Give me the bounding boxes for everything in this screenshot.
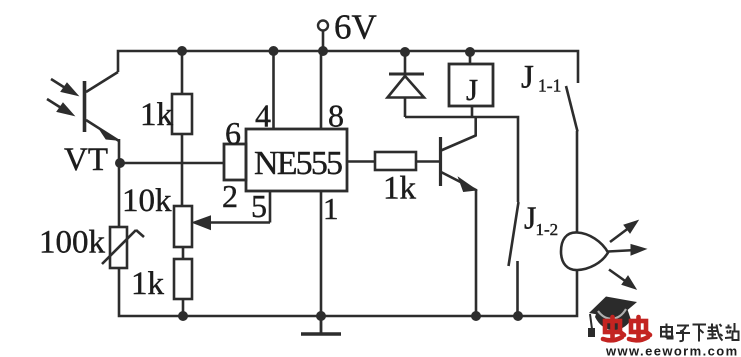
switch contact J1-1 bbox=[566, 86, 578, 233]
op-amp U1 NE555 box bbox=[246, 129, 347, 191]
svg-text:1k: 1k bbox=[140, 97, 174, 133]
transistor Q1 bbox=[441, 117, 477, 316]
relay J coil box bbox=[449, 52, 493, 117]
resistor R3 1k (bottom) bbox=[174, 247, 192, 316]
light output arrow bottom bbox=[609, 270, 636, 290]
svg-text:1k: 1k bbox=[383, 171, 417, 207]
watermark chongchong red glyphs bbox=[603, 317, 650, 340]
wire pin 3 output bbox=[347, 160, 375, 163]
node VT junction dot bbox=[115, 158, 125, 168]
lamp emitter bbox=[561, 232, 608, 270]
svg-text:www.eeworm.com: www.eeworm.com bbox=[605, 344, 739, 357]
svg-text:VT: VT bbox=[64, 142, 108, 178]
svg-text:4: 4 bbox=[255, 98, 271, 134]
svg-text:100k: 100k bbox=[39, 225, 106, 261]
potentiometer RP1 100k bbox=[102, 163, 144, 268]
transistor VT phototransistor bbox=[85, 72, 120, 163]
switch contact J1-2 bbox=[509, 202, 519, 316]
svg-text:5: 5 bbox=[251, 188, 267, 224]
node junction dots on top rail bbox=[177, 46, 475, 57]
wire bottom ground rail bbox=[119, 268, 577, 316]
wire pin 4 to rail bbox=[272, 51, 275, 129]
wire collector node to J1-2 bbox=[405, 117, 518, 202]
wire R1 bottom through VT wire to RP2 top bbox=[181, 163, 184, 206]
svg-text:8: 8 bbox=[328, 98, 344, 134]
svg-text:1-2: 1-2 bbox=[536, 220, 559, 239]
ground bbox=[301, 316, 341, 334]
light arrow 2 into VT bbox=[47, 99, 74, 116]
svg-text:2: 2 bbox=[222, 178, 238, 214]
svg-text:6V: 6V bbox=[334, 8, 377, 47]
wire pin 5 to RP2 wiper bbox=[269, 191, 272, 223]
wire pin 8 to rail bbox=[320, 51, 323, 129]
wire top supply rail bbox=[118, 51, 578, 83]
wire pin 1 to ground rail bbox=[320, 191, 323, 316]
watermark dianzi xiazaizhan glyphs bbox=[661, 323, 739, 342]
svg-text:NE555: NE555 bbox=[254, 145, 343, 182]
resistor R4 1k (base) bbox=[375, 152, 439, 170]
svg-text:6: 6 bbox=[225, 115, 241, 151]
node junction dots on bottom rail bbox=[178, 311, 523, 321]
light output arrow top bbox=[610, 221, 638, 243]
wire VT node to NE555 pins 2,6 bbox=[120, 162, 224, 165]
node 6V terminal bbox=[318, 21, 328, 52]
resistor R1 1k (top) bbox=[172, 51, 192, 163]
svg-text:J: J bbox=[521, 60, 534, 96]
light output arrow middle bbox=[608, 245, 646, 256]
node pins 2,6 tie box bbox=[224, 144, 246, 180]
svg-text:10k: 10k bbox=[122, 183, 172, 219]
svg-text:1-1: 1-1 bbox=[538, 76, 561, 96]
svg-text:J: J bbox=[466, 72, 478, 107]
watermark graduation cap bbox=[588, 297, 637, 338]
potentiometer RP2 10k bbox=[174, 206, 270, 247]
diode VD1 bbox=[388, 52, 425, 117]
svg-text:1k: 1k bbox=[131, 266, 165, 302]
light arrow 1 into VT bbox=[51, 79, 78, 96]
svg-text:1: 1 bbox=[323, 191, 339, 226]
